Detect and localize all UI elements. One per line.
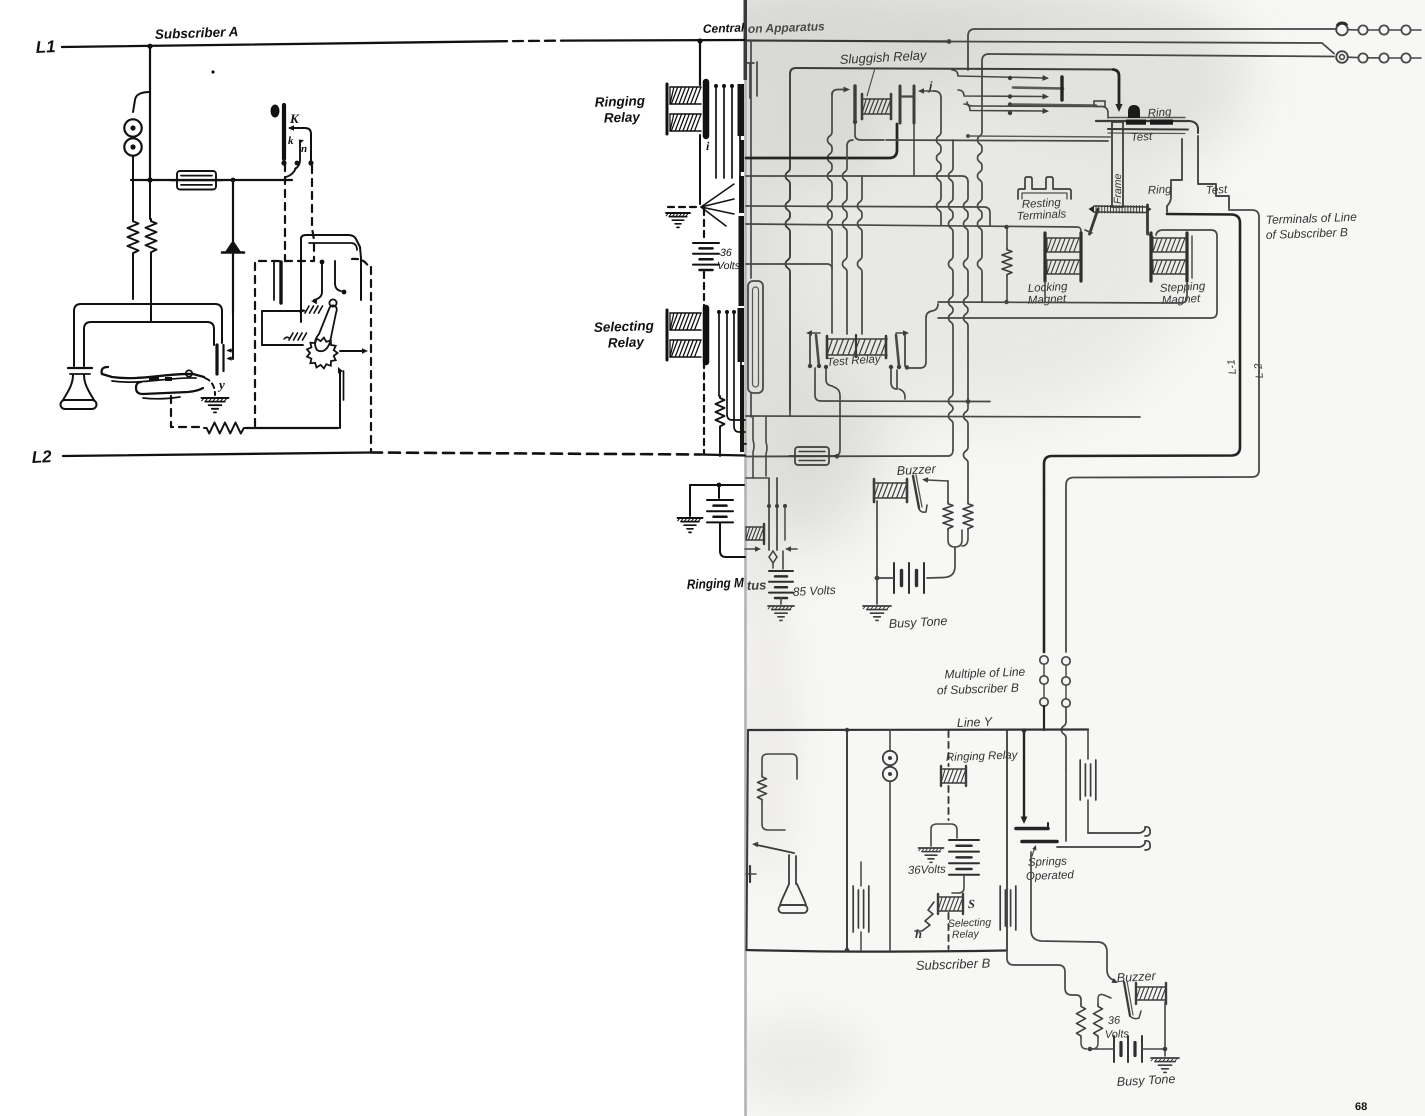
ground sub B — [919, 847, 944, 849]
wire L1 dashed section — [497, 39, 563, 42]
wire branch to ringer coils — [133, 92, 150, 112]
svg-text:Selecting: Selecting — [594, 318, 655, 335]
svg-text:L-1: L-1 — [1225, 359, 1239, 376]
svg-text:of Subscriber B: of Subscriber B — [1266, 225, 1348, 242]
bus line y416 — [746, 416, 1140, 417]
wire L2 dashed — [371, 453, 701, 455]
bus line y176 — [746, 176, 968, 182]
svg-text:Multiple of Line: Multiple of Line — [944, 665, 1025, 682]
svg-text:L1: L1 — [35, 37, 56, 57]
svg-text:Relay: Relay — [608, 334, 646, 350]
dashed loop top — [259, 260, 313, 262]
selecting relay yoke — [666, 310, 669, 360]
sub B resistor wires — [762, 754, 797, 779]
trunk multiple jack row 1 — [1336, 24, 1348, 36]
ground below L2 — [678, 517, 703, 519]
protector at top left — [749, 64, 751, 98]
dashed drop from n contact — [312, 166, 314, 261]
buzzer armature — [913, 476, 919, 508]
subscriber B box left edge — [747, 730, 749, 950]
locking pawl arm — [1090, 209, 1099, 234]
wire buzzer coil to ground — [1164, 1002, 1166, 1056]
svg-text:k: k — [288, 135, 294, 147]
commutator brush — [1128, 105, 1140, 118]
ground under hook — [202, 397, 229, 399]
svg-text:of Subscriber B: of Subscriber B — [937, 681, 1019, 698]
svg-text:Line Y: Line Y — [957, 715, 994, 730]
resting terminals bracket — [1018, 177, 1071, 199]
dashed drop from K bar — [284, 164, 286, 261]
sub B hook lever — [757, 845, 794, 853]
battery below L2 — [707, 499, 733, 501]
wire buzzer arrow feed — [927, 480, 948, 481]
wire resistor to dial — [246, 427, 338, 429]
dial unit enclosure — [301, 235, 361, 300]
svg-text:h: h — [915, 927, 922, 941]
wire box to buzzer B — [1007, 951, 1081, 1005]
heat coil box — [177, 171, 216, 190]
dashed feed ringing relay — [948, 731, 950, 766]
contact arm k — [290, 128, 311, 163]
dashed wire hook to dial-pulse resistor — [171, 396, 204, 427]
hook lower spring — [136, 382, 203, 394]
battery busy tone 1 — [893, 563, 895, 593]
sluggish relay coil — [862, 98, 891, 100]
wire j-line y68 — [790, 68, 1113, 74]
hook contact stack bar 1 — [215, 345, 218, 374]
switchhook contact K blob — [271, 105, 280, 118]
ring-test commutator upper bar — [1096, 120, 1188, 122]
resistor R-b (right vertical zigzag) — [146, 219, 157, 254]
svg-text:Springs: Springs — [1028, 856, 1068, 869]
dashed trunk vertical right — [370, 267, 372, 452]
L-1 trunk wire (thick) — [1044, 214, 1240, 652]
svg-text:Volts: Volts — [1105, 1028, 1130, 1041]
svg-text:36: 36 — [1108, 1015, 1122, 1027]
dial pawl lever — [315, 305, 337, 351]
wire terminals to line Y col1 — [1043, 706, 1045, 730]
svg-text:L-2: L-2 — [1252, 362, 1266, 379]
svg-text:Ring: Ring — [1148, 184, 1173, 197]
riser from busy tone line — [949, 450, 953, 456]
wire battery left — [877, 577, 894, 579]
buzzer B armature loop — [1130, 1011, 1141, 1019]
carbon arrester (filled triangle) — [225, 240, 241, 252]
stepping pawl — [1146, 205, 1149, 234]
test wire stepped — [1198, 136, 1229, 207]
battery buzzer B — [1113, 1036, 1115, 1062]
wire sluggish relay bottom-left — [855, 122, 884, 140]
selecting relay coil lower — [670, 339, 701, 341]
wire top line right page — [746, 41, 949, 42]
selecting relay armature contacts — [727, 312, 745, 420]
springs pointer — [1032, 847, 1035, 856]
wire arrester drop — [232, 180, 234, 241]
interrupter contact diamond — [769, 551, 777, 563]
dashed wire to battery — [703, 209, 705, 241]
dial contact b — [335, 261, 341, 291]
bus vertical x862 — [858, 176, 863, 334]
ringing relay core plate — [703, 82, 710, 136]
springs operated contact bar 2 — [1022, 840, 1057, 844]
sluggish relay hinge bar — [853, 86, 856, 122]
svg-text:K: K — [289, 111, 300, 126]
interrupter contact arrows — [745, 548, 757, 550]
bus vertical x832 to test relay — [831, 268, 833, 333]
heat coil box right page — [795, 447, 829, 465]
wire armature to resistor 2 — [1098, 995, 1111, 1005]
test relay left armature — [809, 333, 811, 366]
svg-text:Frame: Frame — [1112, 174, 1124, 204]
nodes under K — [281, 160, 286, 165]
wire test relay right loop — [891, 369, 897, 389]
inner hook rail — [84, 322, 214, 366]
wire y478 stub — [746, 477, 768, 479]
svg-text:36: 36 — [720, 247, 732, 259]
dashed stub to ground — [668, 206, 699, 208]
impulse hatch marks lower — [289, 333, 293, 340]
dashed arc to ground — [205, 378, 215, 395]
sub B ringing relay coil — [941, 768, 966, 770]
wire L2 into central office — [701, 455, 745, 456]
interrupter armature bars — [768, 478, 770, 550]
node top line — [947, 39, 952, 44]
wire horizontal y180 — [131, 179, 292, 181]
wire arrester to contacts — [232, 313, 234, 359]
sub B condenser 3 — [1079, 760, 1081, 800]
svg-text:Magnet: Magnet — [1162, 293, 1202, 307]
wire left edge vertical lower — [750, 394, 752, 417]
line-finder bank bar 2 — [1013, 105, 1096, 106]
switchhook lever — [102, 367, 204, 378]
wire L2-multiple drop below line Y — [1065, 770, 1067, 841]
springs operated feed arrow — [1023, 731, 1025, 818]
wire dial stubs — [262, 310, 303, 312]
subscriber B box bottom — [747, 950, 1007, 952]
sluggish relay armature 1 — [899, 86, 902, 123]
wire ground-battery loop under L2 — [690, 484, 744, 486]
test relay right armature — [904, 333, 906, 366]
wire Line Y — [748, 728, 1088, 731]
outer hook rail — [74, 304, 222, 366]
commutator right hook — [1188, 121, 1198, 133]
bus vertical x953 — [949, 140, 954, 450]
resistor R-a (left vertical zigzag) — [128, 219, 139, 255]
wire link line-to-k — [286, 168, 296, 177]
wire R-a drop — [149, 180, 151, 219]
battery sub B — [949, 839, 979, 841]
sub B selecting relay coil — [938, 896, 963, 898]
wire into sluggish relay with arrow — [828, 93, 833, 268]
sluggish relay armature 2 — [913, 86, 916, 123]
springs operated contact bar 1 — [1016, 827, 1048, 831]
bus line y264 — [746, 264, 832, 268]
dial post — [279, 262, 282, 303]
wire battery to ground node — [1090, 1048, 1114, 1050]
wire buzzer frame down — [876, 501, 878, 604]
selecting relay core plate — [703, 308, 710, 362]
contact fan — [699, 135, 701, 204]
resistor busy-tone right — [963, 502, 973, 530]
impulse hatch marks upper — [305, 306, 309, 313]
wire left edge vertical — [750, 41, 752, 278]
receiver body — [63, 375, 94, 400]
wire seam verticals to interrupter — [753, 417, 754, 478]
resistor below selecting relay — [716, 396, 725, 428]
sub B condenser 1 — [852, 886, 854, 932]
ratchet rack — [1094, 206, 1146, 207]
dashed below ringing relay — [948, 786, 950, 820]
locking magnet plates — [1043, 233, 1046, 281]
svg-text:Central: Central — [703, 21, 745, 36]
line-finder bank bar 1 — [1013, 88, 1063, 89]
wire circles down — [889, 781, 891, 950]
multiple terminals column 1 — [1040, 656, 1048, 664]
dial gear wheel — [307, 338, 338, 369]
resistor buzzer B right — [1094, 1004, 1103, 1038]
ring wire stepped — [1167, 139, 1182, 212]
svg-text:Ring: Ring — [1147, 106, 1172, 120]
wire magnet return y302 — [938, 283, 1187, 303]
right page background — [746, 0, 1425, 1116]
sub B condenser 2 — [999, 886, 1001, 930]
wire j contact — [921, 90, 934, 92]
node y401 — [966, 399, 971, 404]
thick line y158 up to relay — [746, 124, 897, 158]
wire L1 to central office — [563, 39, 745, 42]
subscriber B box right edge — [1006, 730, 1008, 951]
sub B inner vertical — [846, 730, 848, 950]
dashed drop selecting relay to L2 — [703, 362, 705, 454]
wire test relay left contacts down — [815, 368, 990, 402]
hook contact stack bar 2 — [222, 345, 224, 371]
L-2 trunk wire — [1066, 207, 1259, 652]
multiple terminals column 2 — [1062, 657, 1070, 665]
page seam edge — [744, 0, 747, 1116]
wire terminal line row 2b — [989, 54, 1334, 57]
svg-text:Ringing M: Ringing M — [687, 575, 745, 592]
wire diamond to battery — [772, 563, 774, 568]
wire drop to ringing relay — [699, 41, 701, 85]
jack spring lower — [1057, 841, 1150, 850]
ground 85 volts — [768, 605, 794, 607]
stepping magnet coil upper — [1153, 237, 1185, 239]
svg-text:on Apparatus: on Apparatus — [748, 19, 826, 36]
wire resistors merge — [948, 530, 968, 547]
wire top line to terminal row 2 — [949, 42, 1334, 54]
node main line x150 y180 — [147, 177, 152, 182]
wire battery out — [720, 523, 745, 557]
receiver cord wire A — [132, 255, 134, 299]
ringing relay coil upper — [670, 86, 701, 88]
ground buzzer B — [1151, 1057, 1179, 1059]
svg-text:tus: tus — [747, 577, 767, 593]
stray printing dot — [211, 70, 214, 73]
buzzer B coil — [1136, 986, 1166, 988]
ringing relay coil lower — [670, 113, 701, 115]
bus line y455 through heat coil to riser — [746, 455, 949, 458]
dashed below selecting relay — [948, 913, 950, 949]
svg-text:Ringing: Ringing — [594, 93, 645, 110]
wire terminal line row 1 — [975, 28, 1336, 30]
resistor in magnet circuit — [1002, 248, 1012, 276]
svg-text:85 Volts: 85 Volts — [792, 583, 836, 599]
svg-text:Subscriber A: Subscriber A — [155, 24, 239, 42]
lever pivot ring — [186, 370, 192, 376]
wire ground riser sub B — [931, 824, 957, 846]
bus vertical x847 — [847, 140, 853, 146]
wire ringer to junction — [132, 156, 134, 219]
bus vertical x790 lower — [789, 410, 791, 416]
pulsing resistor (horizontal zigzag) — [204, 423, 246, 434]
ringer gong circle 1 — [124, 119, 141, 136]
wire springs to buzzer B — [1031, 852, 1113, 980]
buzzer armature return loop — [919, 505, 927, 512]
wire subscriber A main drop — [149, 46, 151, 180]
resistor busy-tone left — [943, 502, 953, 530]
wire right contact to x926 riser — [907, 304, 938, 368]
cut-off ink at page seam — [738, 84, 745, 136]
svg-text:Volts: Volts — [717, 260, 741, 272]
wire condenser 3 feed — [1087, 730, 1089, 759]
commutator lower bar — [1108, 128, 1188, 131]
stepping magnet plates — [1149, 233, 1152, 281]
interrupter coil (cut) — [746, 526, 764, 528]
tall protector outline — [748, 281, 763, 393]
dashed trunk vertical left — [254, 263, 256, 427]
condenser 1 stubs — [860, 862, 862, 886]
wire y227 into locking magnet — [1077, 227, 1081, 234]
sub B relay zigzag spring — [915, 902, 934, 931]
lever contact pads — [149, 376, 159, 381]
commutator dark segments — [1126, 120, 1146, 125]
svg-text:y: y — [217, 377, 225, 392]
receiver cord wire B — [150, 254, 152, 321]
wire resistor to L2 — [719, 428, 721, 456]
svg-text:Operated: Operated — [1026, 869, 1075, 883]
frame bar — [1112, 122, 1123, 207]
ringing relay armature contacts — [715, 86, 717, 178]
sub B resistor — [758, 775, 767, 801]
svg-text:Relay: Relay — [604, 109, 642, 125]
dashed wire battery to selecting relay — [703, 272, 705, 310]
sub B receiver — [788, 855, 790, 884]
node: L1 / subscriber A drop — [147, 44, 152, 49]
receiver collar — [68, 367, 92, 369]
svg-text:Relay: Relay — [952, 928, 980, 941]
wire up to dial pawl — [339, 371, 341, 428]
trunk multiple jack row 2 — [1336, 51, 1348, 63]
wire battery drop — [718, 485, 720, 498]
bus line y206 — [746, 206, 990, 225]
sub B hook post — [749, 866, 751, 882]
contact spring n — [295, 141, 300, 169]
svg-text:68: 68 — [1355, 1101, 1367, 1113]
svg-text:S: S — [968, 897, 975, 911]
svg-text:L2: L2 — [31, 447, 52, 467]
locking magnet coil upper — [1047, 237, 1079, 239]
sub B induction circles — [889, 730, 891, 751]
bus vertical x983 — [978, 100, 983, 302]
wire L2 solid — [63, 453, 371, 457]
wire gear to dashed trunk — [340, 350, 364, 352]
receiver bell rim — [61, 400, 97, 409]
wire relay armature2 drop — [913, 123, 915, 176]
svg-text:Magnet: Magnet — [1028, 293, 1068, 307]
buzzer coil — [874, 482, 907, 484]
wire magnet loop y318 — [938, 230, 1217, 318]
ringing relay yoke — [666, 84, 669, 134]
pawl pivot — [329, 299, 336, 306]
bus line y140 — [886, 140, 1108, 141]
ground at ringing relay — [666, 212, 690, 214]
battery 36 volts (central) — [693, 242, 719, 244]
selecting relay coil upper — [670, 312, 701, 314]
wiper feed lines — [952, 70, 1044, 78]
pointer to sluggish relay — [867, 68, 875, 96]
battery 85 volts — [769, 570, 793, 572]
svg-text:Test: Test — [1206, 184, 1229, 197]
wire battery to ground — [780, 598, 782, 604]
locking magnet coil lower — [1047, 259, 1079, 261]
svg-text:36Volts: 36Volts — [908, 864, 947, 877]
dial contact a — [314, 262, 322, 300]
svg-text:Subscriber B: Subscriber B — [916, 955, 991, 973]
svg-text:Ringing Relay: Ringing Relay — [946, 749, 1019, 764]
svg-text:Test: Test — [1131, 131, 1154, 144]
wire terminals to line Y col2 — [1062, 707, 1067, 770]
svg-text:n: n — [301, 143, 307, 155]
contact-bar K — [282, 105, 286, 159]
ringer gong circle 2 — [124, 138, 141, 155]
test relay coil — [827, 338, 887, 340]
wire battery to selecting relay — [952, 875, 964, 893]
thick feeder to ring brush — [1113, 70, 1119, 108]
wire L1 top line — [62, 41, 497, 47]
bus line y225 — [746, 224, 1077, 227]
ground busy tone 1 — [863, 605, 891, 607]
wire wiper bank feed y106 — [967, 102, 1108, 118]
wire frame tap — [968, 136, 1112, 137]
left page background — [0, 0, 746, 1116]
buzzer B armature — [1124, 982, 1130, 1016]
jack spring upper — [1088, 827, 1150, 836]
wire arrester to hook — [232, 253, 234, 313]
stepping magnet coil lower — [1153, 259, 1185, 261]
resistor buzzer B left — [1077, 1004, 1086, 1038]
wire resistors join — [1081, 1038, 1098, 1049]
